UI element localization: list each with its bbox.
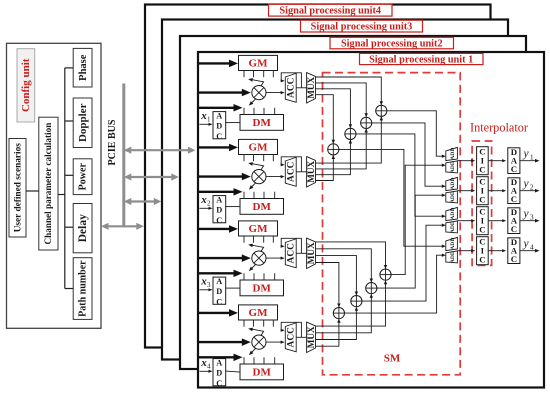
svg-text:C: C — [511, 194, 517, 204]
svg-text:ACC: ACC — [287, 327, 297, 348]
svg-text:DM: DM — [253, 201, 272, 213]
svg-text:DM: DM — [253, 367, 272, 379]
svg-text:ADD: ADD — [450, 191, 456, 203]
svg-text:2: 2 — [207, 200, 211, 208]
svg-text:1: 1 — [207, 116, 211, 124]
svg-text:C: C — [479, 165, 485, 175]
svg-text:Phase: Phase — [78, 54, 89, 81]
svg-text:2: 2 — [530, 183, 534, 192]
svg-text:ADD: ADD — [450, 251, 456, 263]
svg-text:y: y — [522, 238, 529, 250]
svg-text:3: 3 — [530, 213, 534, 222]
svg-text:ACC: ACC — [287, 161, 297, 182]
svg-text:C: C — [216, 216, 222, 225]
svg-text:GM: GM — [249, 223, 269, 235]
svg-text:Signal processing unit3: Signal processing unit3 — [311, 22, 413, 33]
svg-text:C: C — [479, 255, 485, 265]
svg-text:A: A — [216, 111, 222, 120]
svg-text:MUX: MUX — [306, 326, 316, 348]
svg-text:ACC: ACC — [287, 243, 297, 264]
svg-text:Delay: Delay — [77, 214, 89, 242]
svg-text:ADD: ADD — [450, 178, 456, 190]
svg-text:ADD: ADD — [450, 161, 456, 173]
svg-text:D: D — [216, 287, 222, 296]
svg-text:Signal processing unit 1: Signal processing unit 1 — [369, 55, 473, 66]
svg-text:y: y — [522, 148, 529, 160]
svg-text:User defined scenarios: User defined scenarios — [13, 143, 23, 233]
svg-text:ADD: ADD — [450, 148, 456, 160]
svg-text:Path number: Path number — [78, 260, 89, 317]
svg-text:Signal processing unit2: Signal processing unit2 — [341, 39, 443, 50]
svg-text:1: 1 — [530, 153, 534, 162]
svg-text:C: C — [511, 164, 517, 174]
svg-text:C: C — [479, 195, 485, 205]
svg-text:MUX: MUX — [306, 160, 316, 182]
svg-text:ADD: ADD — [450, 238, 456, 250]
svg-text:ADD: ADD — [450, 208, 456, 220]
svg-text:A: A — [216, 195, 222, 204]
svg-text:PCIE BUS: PCIE BUS — [107, 119, 118, 165]
svg-text:DM: DM — [253, 117, 272, 129]
svg-text:D: D — [216, 369, 222, 378]
svg-text:GM: GM — [249, 58, 269, 70]
svg-text:GM: GM — [249, 307, 269, 319]
svg-text:C: C — [511, 254, 517, 264]
svg-text:D: D — [216, 206, 222, 215]
svg-text:ACC: ACC — [287, 77, 297, 98]
svg-text:D: D — [216, 122, 222, 131]
svg-text:y: y — [522, 178, 529, 190]
svg-text:MUX: MUX — [306, 242, 316, 264]
svg-text:C: C — [511, 224, 517, 234]
svg-text:4: 4 — [530, 243, 534, 252]
svg-text:Signal processing unit4: Signal processing unit4 — [279, 6, 381, 17]
svg-text:A: A — [216, 277, 222, 286]
svg-text:Interpolator: Interpolator — [470, 121, 528, 135]
svg-text:Power: Power — [78, 163, 89, 191]
svg-text:Config unit: Config unit — [20, 58, 32, 112]
svg-text:DM: DM — [253, 283, 272, 295]
svg-text:Channel parameter calculation: Channel parameter calculation — [43, 123, 53, 245]
svg-text:GM: GM — [249, 142, 269, 154]
svg-text:3: 3 — [207, 281, 211, 289]
svg-text:A: A — [216, 358, 222, 367]
svg-text:C: C — [216, 379, 222, 388]
svg-text:ADD: ADD — [450, 221, 456, 233]
svg-text:C: C — [216, 132, 222, 141]
svg-text:4: 4 — [207, 363, 211, 371]
svg-text:SM: SM — [384, 353, 401, 365]
svg-text:y: y — [522, 208, 529, 220]
svg-text:MUX: MUX — [306, 76, 316, 98]
svg-text:C: C — [216, 297, 222, 306]
svg-text:Doppler: Doppler — [77, 103, 89, 142]
svg-text:C: C — [479, 225, 485, 235]
